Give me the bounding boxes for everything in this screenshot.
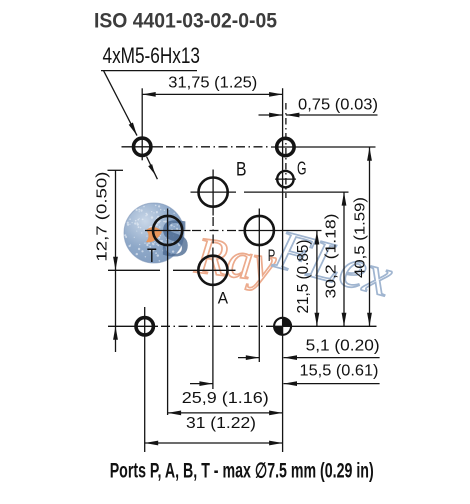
port P <box>245 216 274 245</box>
svg-text:25,9 (1.16): 25,9 (1.16) <box>182 390 269 407</box>
centerline top hole row <box>166 146 269 148</box>
svg-text:Ports P, A, B, T - max ∅7.5 mm: Ports P, A, B, T - max ∅7.5 mm (0.29 in) <box>110 460 374 483</box>
crosshair/extension port T vertical <box>167 209 169 416</box>
leader line for M5 holes <box>101 70 197 72</box>
centerline B-A column <box>212 217 214 247</box>
port B <box>199 178 228 207</box>
centerline pattern symmetry column (dashed) <box>285 103 287 198</box>
extension line from port B <box>191 191 237 193</box>
svg-text:31 (1.22): 31 (1.22) <box>186 415 256 432</box>
watermark globe logo <box>124 203 190 268</box>
extension line left of port A <box>108 269 160 271</box>
mounting hole M5 bottom-right (datum, filled quadrants) <box>273 317 292 336</box>
svg-text:12,7 (0.50): 12,7 (0.50) <box>94 172 111 262</box>
extension line above top-left hole <box>141 88 143 160</box>
mounting hole M5 top-left <box>134 138 151 155</box>
centerline T-P row <box>192 230 237 232</box>
extension line from top-right hole <box>271 146 376 148</box>
svg-text:31,75 (1.25): 31,75 (1.25) <box>168 75 257 92</box>
crosshair G port <box>275 178 296 180</box>
port A <box>198 256 227 285</box>
svg-text:ISO 4401-03-02-0-05: ISO 4401-03-02-0-05 <box>94 9 277 33</box>
extension line bottom-left hole <box>108 325 158 327</box>
crosshair port T horizontal <box>145 230 191 232</box>
svg-text:21,5 (0.85): 21,5 (0.85) <box>295 240 312 314</box>
svg-text:P: P <box>268 246 276 265</box>
long extension line right bolt column <box>282 88 284 452</box>
svg-text:G: G <box>297 159 307 179</box>
centerline bottom hole row <box>161 325 266 327</box>
port T <box>153 216 182 245</box>
extension line right of bottom-right hole <box>266 325 377 327</box>
svg-text:30,2 (1.18): 30,2 (1.18) <box>323 213 340 298</box>
mounting hole M5 top-right <box>277 138 294 155</box>
mounting hole M5 bottom-left <box>136 318 153 335</box>
crosshair/extension port B vertical <box>212 170 214 216</box>
svg-text:40,5 (1.59): 40,5 (1.59) <box>352 197 369 278</box>
pilot port G <box>277 171 293 187</box>
svg-text:4xM5-6Hx13: 4xM5-6Hx13 <box>103 43 201 68</box>
svg-text:0,75 (0.03): 0,75 (0.03) <box>298 97 378 114</box>
crosshair top-left hole <box>122 146 164 148</box>
svg-text:5,1 (0.20): 5,1 (0.20) <box>306 338 380 355</box>
svg-text:15,5 (0.61): 15,5 (0.61) <box>300 363 379 380</box>
crosshair/extension port P vertical <box>258 209 260 363</box>
svg-text:A: A <box>218 289 229 308</box>
crosshair/extension port A vertical <box>212 248 214 390</box>
svg-text:T: T <box>147 246 157 267</box>
svg-text:B: B <box>236 160 247 181</box>
crosshair/extension port P horizontal <box>239 230 322 232</box>
